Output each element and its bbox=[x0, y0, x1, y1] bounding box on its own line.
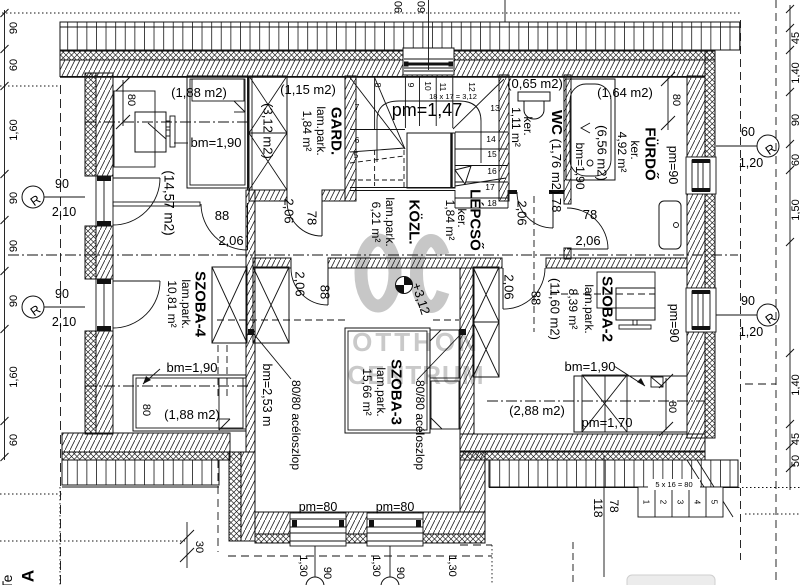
svg-text:2,06: 2,06 bbox=[502, 274, 517, 299]
door WC bbox=[517, 192, 553, 228]
right exterior wall segment 2 bbox=[687, 194, 705, 288]
right dimension chain bbox=[786, 5, 800, 490]
svg-text:1,30: 1,30 bbox=[297, 555, 309, 576]
svg-text:1,11 m²: 1,11 m² bbox=[509, 107, 523, 147]
svg-text:1,30: 1,30 bbox=[370, 555, 382, 576]
top exterior wall cross-hatch strip bbox=[60, 51, 715, 60]
svg-text:18: 18 bbox=[487, 198, 497, 208]
svg-text:2,06: 2,06 bbox=[293, 271, 308, 296]
svg-text:2,06: 2,06 bbox=[282, 198, 297, 223]
svg-text:2,06: 2,06 bbox=[218, 233, 243, 248]
left exterior wall segment A bbox=[85, 73, 113, 176]
svg-text:10: 10 bbox=[423, 81, 433, 91]
WC south wall stubs bbox=[509, 190, 517, 194]
bed SZOBA-3 bbox=[345, 328, 459, 433]
door FURDO bbox=[567, 208, 608, 249]
bed SZOBA-2 bbox=[574, 375, 687, 432]
stair room / corridor boundary double line bbox=[350, 187, 455, 189]
door GARD bbox=[287, 201, 322, 236]
left exterior wall segment C bbox=[85, 331, 113, 434]
right window A pm=90 (FURDO) bbox=[686, 157, 716, 194]
svg-text:1: 1 bbox=[642, 500, 651, 505]
right exterior wall: outer cross-hatch layer bbox=[705, 51, 715, 438]
svg-text:pm=1,47: pm=1,47 bbox=[392, 100, 463, 120]
svg-text:18 x 17 = 3,12: 18 x 17 = 3,12 bbox=[429, 92, 477, 101]
svg-text:lam.park.: lam.park. bbox=[582, 284, 596, 333]
thin partition top-left room east side bbox=[248, 77, 253, 190]
svg-text:(1,15 m2): (1,15 m2) bbox=[280, 82, 336, 97]
FURDO shower tray bbox=[659, 201, 681, 249]
left dimension chain bbox=[1, 9, 21, 461]
staircase lower flight treads 13-18 bbox=[455, 132, 508, 208]
svg-text:(11,60 m2): (11,60 m2) bbox=[548, 278, 563, 340]
svg-text:ker.: ker. bbox=[628, 140, 642, 159]
top terrace band bbox=[60, 22, 740, 50]
svg-text:1,60: 1,60 bbox=[8, 119, 20, 140]
staircase treads upper flight bbox=[375, 77, 453, 130]
svg-text:6: 6 bbox=[355, 135, 360, 145]
svg-text:1,40: 1,40 bbox=[790, 62, 800, 83]
dresser top-left room bbox=[114, 91, 175, 167]
svg-text:bm=1,90: bm=1,90 bbox=[191, 135, 242, 150]
wall WC east / FURDO west bbox=[564, 75, 571, 204]
staircase left flight steps 5-7 bbox=[350, 130, 405, 188]
bottom window 1 pm=80 bbox=[290, 513, 346, 546]
svg-text:pm=80: pm=80 bbox=[376, 500, 415, 514]
svg-text:A: A bbox=[19, 570, 38, 582]
headroom dashed line SZOBA-2 bbox=[550, 293, 655, 295]
left exterior wall segment B bbox=[85, 226, 113, 279]
bottom-right 78/118 dimension bbox=[591, 455, 621, 577]
steel column marker left bbox=[248, 329, 254, 335]
svg-text:2,06: 2,06 bbox=[515, 200, 530, 225]
watermark OC Otthon Centrum bbox=[348, 240, 485, 390]
svg-text:45: 45 bbox=[790, 433, 800, 445]
svg-text:80/80 acéloszlop: 80/80 acéloszlop bbox=[413, 380, 427, 470]
svg-text:SZOBA-4: SZOBA-4 bbox=[192, 271, 209, 337]
svg-text:5: 5 bbox=[354, 150, 359, 160]
svg-text:pm=90: pm=90 bbox=[667, 304, 681, 343]
bed SZOBA-4 bbox=[133, 375, 246, 431]
svg-text:1,50: 1,50 bbox=[790, 199, 800, 220]
svg-text:bm=1,90: bm=1,90 bbox=[565, 359, 616, 374]
svg-text:2,10: 2,10 bbox=[52, 205, 76, 219]
SZOBA-2 desk with monitor bbox=[597, 272, 655, 329]
svg-text:90: 90 bbox=[790, 114, 800, 126]
svg-text:60: 60 bbox=[8, 59, 20, 71]
long dashed vertical left bbox=[60, 85, 62, 585]
door SZOBA-2 bbox=[503, 268, 545, 309]
svg-text:SZOBA-3: SZOBA-3 bbox=[388, 359, 405, 425]
WC toilet bbox=[518, 92, 550, 119]
staircase walking line with arrow bbox=[377, 101, 481, 184]
dashed vertical at WC door axis bbox=[533, 196, 535, 332]
right exterior wall segment 1 bbox=[687, 76, 705, 157]
right window B pm=90 (SZOBA-2) bbox=[686, 288, 716, 332]
svg-text:bm=1,90: bm=1,90 bbox=[167, 360, 218, 375]
svg-text:KÖZL.: KÖZL. bbox=[406, 200, 423, 245]
svg-text:13: 13 bbox=[490, 103, 500, 113]
FURDO bathtub bbox=[566, 79, 615, 180]
gray footer box bbox=[627, 575, 715, 585]
svg-text:90: 90 bbox=[55, 177, 69, 191]
svg-text:lam.park.: lam.park. bbox=[383, 197, 397, 246]
svg-text:10,81 m²: 10,81 m² bbox=[165, 280, 179, 327]
svg-text:14: 14 bbox=[486, 134, 496, 144]
svg-text:3: 3 bbox=[676, 500, 685, 505]
svg-text:1,20: 1,20 bbox=[739, 156, 763, 170]
bottom wall of SZOBA-3 bbox=[255, 512, 485, 543]
svg-text:90: 90 bbox=[8, 22, 20, 34]
bottom-left descending wall column bbox=[229, 452, 255, 541]
svg-text:pm=1,70: pm=1,70 bbox=[582, 415, 633, 430]
svg-text:88: 88 bbox=[318, 285, 333, 299]
wardrobe X-box SZOBA-4 side bbox=[212, 267, 247, 343]
tall X-box shaft at SZOBA-2 bbox=[473, 267, 499, 377]
leader line to acelszlop label left bbox=[253, 333, 291, 379]
svg-text:1,60: 1,60 bbox=[8, 366, 20, 387]
bottom-left terrace band bbox=[62, 460, 219, 487]
centerline top-left room bbox=[85, 121, 250, 123]
svg-text:8: 8 bbox=[373, 83, 383, 88]
top wall inner face line bbox=[60, 76, 705, 78]
svg-text:80: 80 bbox=[670, 94, 682, 106]
svg-text:90: 90 bbox=[321, 567, 333, 579]
steel column marker right bbox=[459, 329, 466, 335]
svg-text:60: 60 bbox=[8, 434, 20, 446]
FURDO west wall lower stub bbox=[564, 248, 571, 259]
svg-text:(1,64 m2): (1,64 m2) bbox=[597, 85, 653, 100]
level marker +3,12 bbox=[396, 277, 434, 317]
bottom-right exterior wall band bbox=[460, 434, 705, 460]
section/axis dash-dot line across plan bbox=[8, 254, 738, 256]
svg-text:60: 60 bbox=[416, 1, 428, 13]
svg-text:lam.park.: lam.park. bbox=[314, 106, 328, 155]
svg-text:lam.park.: lam.park. bbox=[179, 279, 193, 328]
svg-text:80/80 acéloszlop: 80/80 acéloszlop bbox=[289, 380, 303, 470]
door SZOBA-3 bbox=[291, 268, 328, 305]
centerline SZOBA-4 bed bbox=[85, 385, 248, 387]
staircase winder fan lines bbox=[350, 78, 504, 150]
SZOBA-4 north thin wall bbox=[113, 202, 200, 206]
svg-text:78: 78 bbox=[305, 211, 320, 225]
svg-text:90: 90 bbox=[394, 567, 406, 579]
GARD south wall right piece bbox=[322, 190, 345, 201]
svg-text:12: 12 bbox=[467, 82, 477, 92]
svg-text:118: 118 bbox=[591, 498, 605, 517]
svg-text:4,92 m²: 4,92 m² bbox=[615, 132, 629, 173]
svg-text:1,20: 1,20 bbox=[739, 325, 763, 339]
right R marker 2 bbox=[716, 294, 779, 339]
door SZOBA-4 (from corridor) bbox=[201, 203, 248, 250]
left R marker 1 bbox=[22, 177, 85, 219]
svg-text:(14,57 m2): (14,57 m2) bbox=[162, 170, 177, 235]
svg-text:1,84 m²: 1,84 m² bbox=[300, 111, 314, 152]
svg-text:90: 90 bbox=[741, 294, 755, 308]
svg-text:Te: Te bbox=[0, 574, 15, 585]
dashed verticals in SZOBA-4 bbox=[217, 345, 219, 398]
left window/door 2 bbox=[96, 279, 160, 331]
svg-text:(1,88 m2): (1,88 m2) bbox=[164, 407, 220, 422]
svg-text:5 x 16 = 80: 5 x 16 = 80 bbox=[655, 480, 692, 489]
GARD south wall left piece bbox=[249, 190, 287, 201]
svg-text:(6,56 m2): (6,56 m2) bbox=[595, 125, 610, 181]
svg-text:60: 60 bbox=[790, 154, 800, 166]
svg-text:8,39 m²: 8,39 m² bbox=[566, 289, 580, 330]
top mini dim labels bbox=[393, 0, 505, 70]
svg-text:90: 90 bbox=[8, 192, 20, 204]
bottom window 2 pm=80 bbox=[367, 513, 423, 546]
svg-text:bm=2,53 m: bm=2,53 m bbox=[260, 364, 274, 427]
bottom-left exterior wall band bbox=[62, 433, 230, 460]
svg-text:GARD.: GARD. bbox=[328, 107, 345, 155]
svg-text:1,84 m²: 1,84 m² bbox=[443, 200, 457, 241]
svg-text:60: 60 bbox=[741, 125, 755, 139]
svg-text:bm=1,90: bm=1,90 bbox=[573, 142, 587, 189]
wardrobe X-box SZOBA-3 side bbox=[253, 267, 289, 343]
staircase landing bbox=[407, 133, 455, 188]
headroom dashed line right bbox=[433, 319, 459, 321]
svg-text:90: 90 bbox=[8, 240, 20, 252]
svg-text:7: 7 bbox=[355, 102, 360, 112]
corridor south wall segment 2 bbox=[328, 258, 502, 268]
svg-text:88: 88 bbox=[529, 291, 544, 305]
wall stair east / WC west bbox=[499, 75, 509, 201]
svg-text:4: 4 bbox=[693, 500, 702, 505]
bed top-left room bbox=[187, 76, 248, 188]
left R marker 2 bbox=[22, 287, 85, 329]
SZOBA-3 south-east wall column bbox=[460, 452, 485, 512]
svg-text:15,66 m²: 15,66 m² bbox=[360, 368, 374, 415]
svg-text:SZOBA-2: SZOBA-2 bbox=[599, 276, 616, 342]
svg-text:78: 78 bbox=[583, 207, 597, 222]
svg-text:45: 45 bbox=[790, 32, 800, 44]
divider wall SZOBA-3 / SZOBA-2 bbox=[460, 268, 474, 434]
svg-text:pm=90: pm=90 bbox=[666, 146, 680, 185]
svg-text:lam.park.: lam.park. bbox=[374, 367, 388, 416]
svg-text:80: 80 bbox=[666, 401, 678, 413]
svg-text:9: 9 bbox=[406, 83, 416, 88]
svg-text:pm=80: pm=80 bbox=[299, 500, 338, 514]
top window above stairs bbox=[403, 48, 454, 75]
svg-text:(2,88 m2): (2,88 m2) bbox=[509, 403, 565, 418]
svg-text:50: 50 bbox=[790, 455, 800, 467]
svg-text:1,30: 1,30 bbox=[446, 555, 458, 576]
svg-text:2,10: 2,10 bbox=[52, 315, 76, 329]
svg-text:88: 88 bbox=[215, 208, 229, 223]
svg-text:(1,88 m2): (1,88 m2) bbox=[171, 85, 227, 100]
bottom window dim stems and circles bbox=[297, 546, 458, 585]
top exterior wall hatch strip bbox=[60, 60, 705, 77]
right R marker 1 bbox=[716, 125, 779, 170]
bottom-right stair tread band bbox=[489, 460, 738, 517]
svg-text:(3,12 m2): (3,12 m2) bbox=[261, 103, 276, 159]
svg-text:16: 16 bbox=[487, 166, 497, 176]
svg-text:30: 30 bbox=[193, 541, 205, 553]
interior wall between SZOBA-4 and SZOBA-3 (vertical) bbox=[246, 190, 255, 452]
svg-text:80: 80 bbox=[125, 94, 137, 106]
centerline SZOBA-2 bed bbox=[487, 400, 705, 402]
external step boxes 1-5 bbox=[638, 479, 723, 517]
svg-text:(0,65 m2): (0,65 m2) bbox=[507, 76, 563, 91]
svg-text:78: 78 bbox=[607, 499, 621, 513]
svg-text:80: 80 bbox=[140, 404, 152, 416]
svg-text:17: 17 bbox=[485, 182, 495, 192]
headroom dashed line left bbox=[217, 319, 345, 321]
30 dimension bottom-left bbox=[180, 522, 205, 568]
left window/door 1 bbox=[96, 176, 160, 226]
leader line to acelszlop label right bbox=[417, 334, 461, 380]
svg-text:90: 90 bbox=[55, 287, 69, 301]
svg-text:WC (1,76 m2) 78: WC (1,76 m2) 78 bbox=[549, 110, 566, 212]
svg-text:90: 90 bbox=[8, 295, 20, 307]
svg-text:FÜRDŐ: FÜRDŐ bbox=[642, 127, 660, 181]
wardrobe X-box GARD bbox=[249, 76, 287, 190]
corridor south wall segment 3 bbox=[546, 258, 687, 268]
wall GARD east / stair west bbox=[345, 76, 356, 201]
corridor south wall segment 1 bbox=[253, 258, 291, 268]
svg-text:11: 11 bbox=[438, 83, 448, 92]
svg-text:90: 90 bbox=[393, 1, 405, 13]
svg-text:5: 5 bbox=[710, 500, 719, 505]
svg-text:2: 2 bbox=[659, 500, 668, 505]
dashed construction lines bottom bbox=[218, 0, 776, 585]
svg-text:6,21 m²: 6,21 m² bbox=[369, 202, 383, 243]
svg-text:15: 15 bbox=[487, 149, 497, 159]
right exterior wall segment 3 bbox=[687, 332, 705, 438]
svg-text:1,40: 1,40 bbox=[790, 374, 800, 395]
svg-text:2,06: 2,06 bbox=[575, 233, 600, 248]
